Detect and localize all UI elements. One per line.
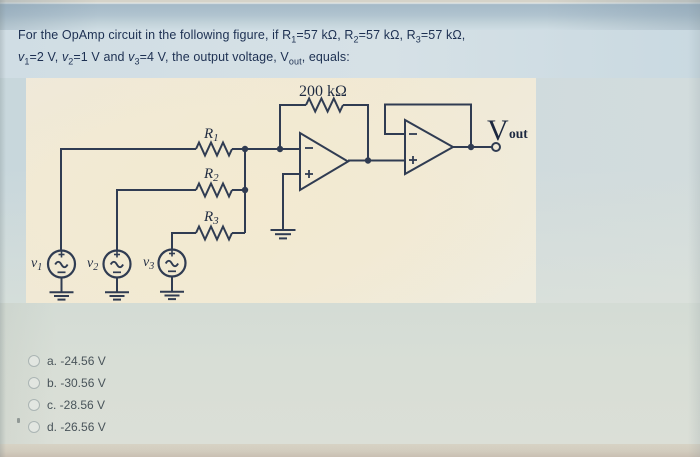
circuit schematic svg [26, 78, 536, 303]
node: feedback tap [277, 146, 283, 152]
resistor R2 [196, 184, 232, 197]
wire: v3 to ground [171, 277, 173, 292]
svg-text:R1: R1 [203, 126, 219, 144]
option b radio [28, 377, 40, 389]
U2 minus sign [409, 133, 417, 135]
resistor R1 [196, 143, 232, 156]
option d radio [28, 421, 40, 433]
wire: R1 to op-amp minus input [232, 148, 300, 150]
svg-text:v3: v3 [143, 255, 154, 272]
wire: U2 output [453, 146, 492, 148]
node: summing junction on R1 row [242, 146, 248, 152]
option c radio [28, 399, 40, 411]
source v1 [48, 251, 75, 278]
node: feedback to output junction [365, 157, 371, 163]
ground: v1 [50, 292, 74, 299]
wire: feedback right down to output [343, 105, 368, 161]
svg-text:R3: R3 [203, 209, 219, 227]
wire: v1 to ground [61, 278, 63, 293]
ground: U1 plus [271, 230, 296, 238]
ground: v3 [160, 292, 184, 299]
op-amp U1 [300, 133, 348, 190]
wire: v2 to R2 row [117, 190, 196, 251]
U2 plus sign [409, 156, 417, 164]
svg-text:v2: v2 [87, 256, 98, 273]
option a radio [28, 355, 40, 367]
svg-text:v1: v1 [31, 256, 42, 273]
svg-text:V: V [487, 114, 509, 147]
source v3 [159, 250, 186, 277]
resistor R3 [196, 227, 232, 240]
wire: v3 to R3 row [172, 233, 196, 250]
resistor Rf 200k [306, 99, 343, 112]
terminal: Vout open circle [492, 143, 500, 151]
svg-text:200 kΩ: 200 kΩ [299, 83, 347, 100]
node: U2 output junction [468, 144, 474, 150]
svg-text:out: out [509, 126, 528, 141]
U1 minus sign [305, 147, 313, 149]
svg-text:R2: R2 [203, 166, 219, 184]
wire: R2 to bus [232, 189, 245, 191]
wire: U1 plus input to ground [283, 174, 300, 230]
wire: junction vertical bus [244, 149, 246, 233]
wire: feedback left vertical [280, 105, 306, 149]
node: R2 junction [242, 187, 248, 193]
wire: U2 feedback loop [385, 105, 471, 148]
ground: v2 [105, 292, 129, 299]
wire: R3 to bus [232, 232, 245, 234]
wire: v1 to R1 row [61, 149, 196, 251]
op-amp U2 [405, 120, 453, 174]
source v2 [104, 251, 131, 278]
wire: U1 output to U2 plus input [348, 160, 405, 162]
wire: v2 to ground [116, 278, 118, 293]
U1 plus sign [305, 170, 313, 178]
